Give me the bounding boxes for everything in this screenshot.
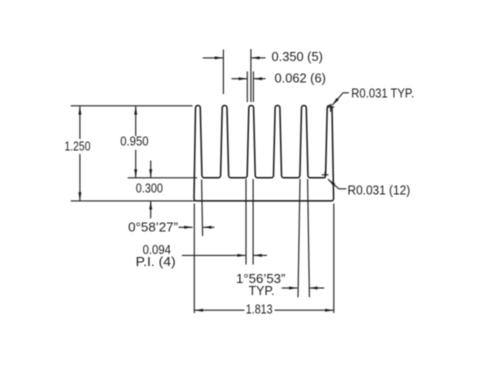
dimension 0.062 right arrow pointing left [254, 78, 266, 80]
dimension 0.350 right arrow pointing left [251, 57, 265, 59]
dimension 0.950 upper segment with up arrow [135, 106, 137, 136]
svg-text:R0.031 (12): R0.031 (12) [348, 183, 411, 198]
dimension 0.950 lower segment with down arrow [135, 150, 137, 178]
dimension 1.250 lower segment with down arrow [79, 154, 81, 201]
svg-text:0°58’27”: 0°58’27” [128, 219, 178, 234]
svg-text:TYP.: TYP. [249, 283, 275, 298]
svg-text:R0.031 TYP.: R0.031 TYP. [351, 86, 414, 101]
svg-text:0.350 (5): 0.350 (5) [272, 49, 323, 64]
bottom extension line at part bottom [71, 200, 196, 202]
top extension line at part top [71, 105, 193, 107]
svg-text:0.950: 0.950 [120, 134, 149, 149]
heatsink extrusion profile outline [194, 106, 334, 201]
extension of fin 3 right side below base [252, 179, 254, 265]
angle 0d58m27s right arrow pointing left [203, 226, 214, 228]
svg-text:1.250: 1.250 [65, 140, 91, 154]
extension line fin 3 right edge for 0.062 [252, 71, 254, 102]
extension of fin 3 left side below base [245, 179, 247, 265]
dimension 1.813 left segment arrow [195, 309, 245, 311]
angle 0d58m27s left arrow pointing right [179, 226, 193, 228]
extension of fin 5 right side below base [308, 179, 310, 297]
svg-text:0.062 (6): 0.062 (6) [275, 70, 326, 85]
angle 1d56m53s right arrow pointing left [309, 287, 324, 289]
extension line 1.813 left [193, 204, 195, 314]
extension line at fin 3 center for 0.350 pitch [250, 49, 252, 102]
svg-text:1.813: 1.813 [246, 302, 273, 317]
dimension 1.250 upper segment with up arrow [79, 106, 81, 139]
leader cross marker at fin 6 root fillet [322, 171, 329, 178]
extension line 1.813 right [333, 204, 335, 314]
dimension 0.094 leader arrow pointing right [182, 254, 246, 256]
extension line at fin 2 for 0.350 pitch [222, 50, 224, 95]
svg-text:P.I. (4): P.I. (4) [136, 254, 176, 268]
svg-text:0.300: 0.300 [136, 181, 163, 196]
leader line R0.031 (12) with arrow at root fillet [328, 179, 346, 189]
dimension 0.094 opposing arrow pointing left [253, 254, 267, 256]
dimension 0.350 left arrow pointing right [203, 57, 223, 59]
extension of fin 5 left side below base [298, 179, 300, 297]
angle 1d56m53s left arrow pointing right [282, 287, 298, 289]
dimension 1.813 right segment arrow [275, 309, 334, 311]
dimension 0.300 lower outside arrow pointing up [150, 201, 152, 218]
leader line R0.031 TYP. with arrow at fin 6 tip [332, 93, 349, 105]
leader cross marker at fin 6 tip radius [328, 104, 335, 112]
base-top extension line [128, 177, 197, 179]
extension of fin 1 right side below base [202, 180, 203, 237]
extension line fin 3 left edge for 0.062 [246, 71, 248, 102]
dimension 0.300 upper outside arrow pointing down [150, 161, 152, 178]
dimension 0.062 left arrow pointing right [232, 78, 248, 80]
